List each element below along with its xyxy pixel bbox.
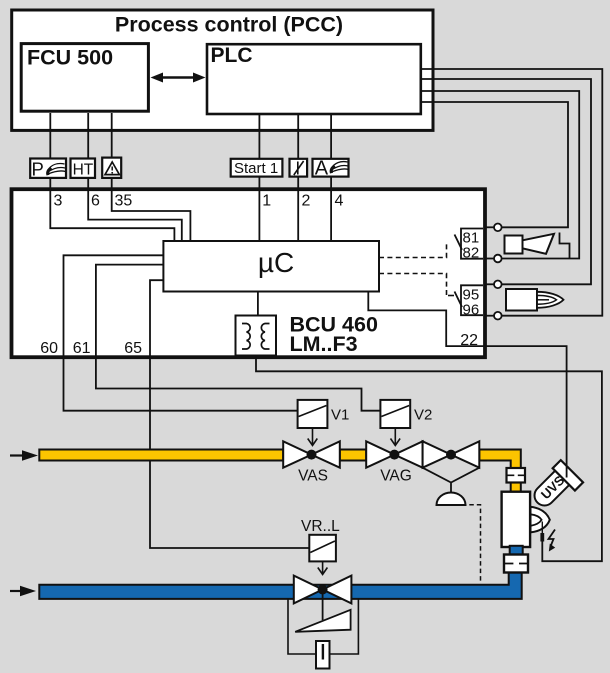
pipe gas yellow segment 2 bbox=[340, 450, 366, 461]
box input reset (lightning) bbox=[290, 159, 308, 177]
svg-text:V2: V2 bbox=[414, 407, 432, 424]
op-amp microcontroller box uC bbox=[163, 241, 379, 292]
wire PLC to terminal 96 bbox=[421, 69, 603, 316]
terminal bracket 95/96 bbox=[461, 285, 483, 315]
valve VAS solenoid box V1 bbox=[298, 400, 328, 428]
icon gas flow waves in P box bbox=[48, 164, 66, 175]
coil left winding bbox=[242, 324, 250, 350]
wire PLC to terminal 4 bbox=[330, 115, 332, 241]
arrow air inlet bbox=[10, 590, 22, 592]
svg-text:2: 2 bbox=[302, 193, 311, 210]
pipe blue stub below burner bbox=[510, 546, 523, 555]
burner body bbox=[502, 492, 530, 547]
butterfly valve VR..L bbox=[294, 576, 323, 604]
valve VAG bbox=[366, 441, 394, 467]
wire uC to coil driver bbox=[257, 292, 259, 316]
svg-text:4: 4 bbox=[335, 193, 344, 210]
wire terminal 22 to UVS sensor bbox=[368, 292, 566, 478]
svg-text:3: 3 bbox=[54, 193, 63, 210]
svg-text:PLC: PLC bbox=[211, 44, 253, 67]
wire FCU to terminal 6 bbox=[88, 113, 182, 241]
box input P (pressure switch) bbox=[30, 159, 66, 178]
svg-text:61: 61 bbox=[73, 340, 91, 357]
control loop box below valve bbox=[288, 599, 358, 654]
coil driver box bbox=[236, 316, 277, 356]
arrow gas inlet bbox=[10, 454, 24, 456]
wire PLC to terminal 82 bbox=[421, 91, 580, 259]
flange on air pipe bbox=[504, 555, 528, 573]
wire PLC to terminal 2 bbox=[297, 115, 299, 241]
valve vent (third bowtie) bbox=[423, 441, 451, 467]
ignition transformer icon bbox=[506, 289, 537, 311]
terminal circle 95 bbox=[485, 283, 494, 285]
dashed control line uC to contact 95/96 bbox=[379, 274, 447, 298]
box Process control (PCC) bbox=[12, 10, 433, 130]
svg-text:22: 22 bbox=[460, 332, 478, 349]
wire end into UVS cap bbox=[566, 465, 568, 478]
svg-text:Process control (PCC): Process control (PCC) bbox=[115, 13, 343, 37]
wire PLC to terminal 95 bbox=[421, 79, 592, 284]
svg-text:96: 96 bbox=[463, 302, 480, 319]
ramp symbol bbox=[295, 610, 350, 632]
wire PLC to terminal 81 bbox=[421, 102, 569, 227]
double arrow FCU-PLC bbox=[151, 73, 206, 83]
svg-text:VAG: VAG bbox=[380, 468, 412, 485]
arrow V1 to VAS bbox=[308, 428, 318, 446]
svg-text:FCU 500: FCU 500 bbox=[27, 46, 113, 70]
svg-text:60: 60 bbox=[40, 340, 58, 357]
spark electrode bbox=[541, 522, 543, 534]
arrow actuator to butterfly valve bbox=[318, 561, 328, 574]
svg-text:VAS: VAS bbox=[298, 468, 328, 485]
box FCU 500 bbox=[21, 44, 148, 112]
terminal circle 82 bbox=[485, 258, 494, 260]
icon air flow waves in A box bbox=[331, 162, 349, 173]
svg-text:Start 1: Start 1 bbox=[234, 160, 278, 177]
orifice symbol bbox=[316, 641, 330, 669]
valve VAG solenoid box V2 bbox=[380, 400, 410, 428]
svg-text:µC: µC bbox=[258, 247, 294, 278]
svg-text:V1: V1 bbox=[331, 407, 349, 424]
flame sensor eye bbox=[531, 507, 550, 533]
horn alarm icon bbox=[505, 236, 523, 254]
dashed control line uC to contact 81/82 bbox=[379, 244, 447, 258]
box input A (air flow) bbox=[313, 159, 349, 177]
switch contact 81/82 bbox=[455, 235, 463, 250]
pipe gas yellow segment 3 with elbow down bbox=[479, 450, 521, 492]
terminal circle 81 bbox=[485, 226, 494, 228]
wire uC to terminal 65 and actuator VR..L bbox=[150, 280, 309, 548]
svg-text:35: 35 bbox=[115, 193, 133, 210]
icon lightning in box bbox=[297, 162, 299, 175]
box PLC bbox=[207, 44, 421, 114]
pipe air blue with elbow to burner bbox=[39, 573, 521, 599]
svg-text:P: P bbox=[32, 159, 44, 180]
coil right winding bbox=[261, 324, 269, 350]
dashed vent line bbox=[462, 505, 481, 583]
arrow V2 to VAG bbox=[391, 428, 401, 446]
wire horn hook bbox=[560, 233, 570, 259]
box input warning triangle bbox=[102, 158, 121, 178]
valve VAS bbox=[283, 441, 311, 467]
terminal bracket 81/82 bbox=[461, 229, 483, 259]
box input Start 1 bbox=[231, 159, 283, 177]
wire valve stem to ramp bbox=[322, 592, 324, 620]
svg-text:VR..L: VR..L bbox=[301, 518, 340, 535]
svg-text:HT: HT bbox=[73, 162, 94, 179]
svg-text:LM..F3: LM..F3 bbox=[290, 332, 358, 356]
wire ignition output to spark electrode bbox=[256, 356, 602, 562]
box BCU 460 bbox=[12, 189, 486, 357]
pipe gas yellow segment 1 bbox=[39, 450, 283, 461]
svg-text:6: 6 bbox=[91, 193, 100, 210]
icon warning triangle bbox=[105, 162, 119, 175]
wire FCU to terminal 3 bbox=[50, 113, 174, 241]
icon lightning spark bbox=[549, 530, 556, 547]
wire PLC to terminal 1 bbox=[258, 115, 260, 241]
svg-text:1: 1 bbox=[262, 193, 271, 210]
switch contact 95/96 bbox=[455, 292, 463, 308]
wire uC to terminal 61 and valve V2 bbox=[96, 265, 381, 411]
terminal circle 96 bbox=[485, 315, 494, 317]
wire vent valve to vent bell bbox=[423, 468, 480, 493]
flange on gas pipe bbox=[507, 468, 526, 483]
wire FCU to terminal 35 bbox=[112, 113, 191, 241]
vent bell bbox=[437, 493, 466, 505]
wire uC to terminal 60 and valve V1 bbox=[64, 255, 298, 410]
box input HT (high temperature) bbox=[71, 159, 96, 178]
svg-text:65: 65 bbox=[124, 340, 142, 357]
svg-text:82: 82 bbox=[463, 245, 480, 262]
actuator box VR..L bbox=[309, 535, 336, 562]
svg-text:A: A bbox=[315, 158, 329, 180]
UVS flame sensor bbox=[528, 460, 583, 515]
